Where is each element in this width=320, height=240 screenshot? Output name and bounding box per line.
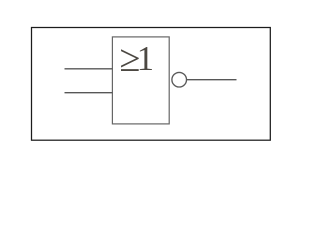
gate U1 (IEC NOR gate body) <box>112 37 169 124</box>
svg-text:1: 1 <box>137 40 154 78</box>
inversion bubble <box>172 72 187 87</box>
wire input B <box>65 92 113 94</box>
wire output <box>187 79 237 81</box>
border frame <box>32 28 271 141</box>
wire input A <box>65 68 113 70</box>
